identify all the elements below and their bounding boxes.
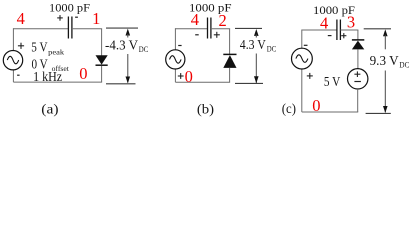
wire top rail right (node 1) [72,28,102,30]
wire left branch lower [301,69,303,112]
DC source + polarity (inside) [354,73,360,75]
svg-text:1: 1 [92,9,100,28]
capacitor C1 right plate [71,17,73,39]
capacitor C3 - polarity [328,35,332,37]
svg-text:2: 2 [218,11,226,30]
AC source - polarity [304,44,308,46]
dimension line lower [384,71,386,113]
svg-text:4.3 V: 4.3 V [240,38,266,53]
svg-text:3: 3 [347,13,355,32]
AC source V1 circle [3,51,22,70]
wire bottom rail (node 0) [175,81,230,83]
capacitor C2 - polarity [195,34,199,36]
capacitor C1 - polarity [75,16,78,18]
dimension top bar [364,28,391,30]
svg-text:0: 0 [185,67,193,86]
AC source - polarity [17,74,20,76]
AC source V2 sine wave [170,56,182,64]
capacitor C3 + polarity [341,35,346,37]
capacitor C2 + polarity [214,34,220,36]
AC source - polarity [178,45,181,47]
dimension down arrowhead [254,76,259,83]
AC source + polarity [307,75,313,77]
svg-text:peak: peak [48,47,64,56]
dimension line lower [255,54,257,84]
capacitor C1 + polarity [57,17,63,19]
wire left branch lower [174,69,176,82]
wire right branch upper [101,29,103,56]
dimension line lower [127,54,129,83]
wire top rail left (node 4) [302,29,337,31]
capacitor C2 right plate [210,18,212,39]
wire right branch lower [101,66,103,82]
svg-text:DC: DC [139,44,149,54]
svg-text:5 V: 5 V [324,75,340,90]
wire right branch lower [229,68,231,82]
DC source - polarity (inside) [354,81,361,83]
svg-text:0: 0 [312,96,320,115]
wire top rail right (node 2) [211,28,230,30]
wire right branch upper [229,29,231,55]
diode D3 triangle (pointing up) [352,41,364,50]
capacitor C1 left plate [67,17,69,39]
AC source + polarity [18,45,24,47]
wire left branch upper [174,28,176,50]
dimension down arrowhead [126,77,131,84]
svg-text:-4.3 V: -4.3 V [105,39,138,54]
svg-text:(b): (b) [197,103,215,118]
svg-text:DC: DC [267,43,277,53]
wire right branch top [357,30,359,40]
dimension up stem [127,34,129,38]
svg-text:5 V: 5 V [31,40,47,55]
svg-text:9.3 V: 9.3 V [370,54,399,69]
dimension top bar [106,27,138,29]
wire right branch lower [357,89,359,112]
capacitor C2 left plate [207,18,209,39]
diode D1 cathode bar [96,64,108,66]
AC source V4 circle [292,48,313,69]
wire left branch upper [12,28,14,50]
dimension bottom bar [366,112,391,114]
diode D1 triangle (pointing down) [96,55,108,64]
svg-text:0: 0 [79,64,87,83]
DC source V3 circle [348,69,368,89]
AC source V2 circle [166,50,185,69]
wire top rail left (node 4) [175,28,207,30]
dimension up arrowhead [126,29,131,36]
svg-text:1000 pF: 1000 pF [49,1,90,15]
svg-text:4: 4 [191,10,199,29]
svg-text:4: 4 [17,9,25,28]
svg-text:(c): (c) [282,102,297,117]
wire bottom rail (node 0) [13,81,102,83]
AC source + polarity [178,75,184,77]
diode D3 cathode bar [352,39,364,41]
wire top rail left (node 4) [13,28,68,30]
dimension top bar [235,27,262,29]
wire bottom rail (node 0) [302,111,358,113]
diode D2 triangle (pointing up) [223,55,236,68]
capacitor C3 right plate [339,20,341,41]
AC source V1 sine wave [7,56,18,64]
dimension bottom bar [235,82,263,84]
wire left branch lower [12,70,14,82]
dimension bottom bar [106,83,136,85]
AC source V4 sine wave [296,55,308,63]
dimension up stem [384,35,386,50]
wire right branch middle [357,49,359,68]
dimension up stem [255,34,257,37]
svg-text:DC: DC [399,60,409,70]
dimension up arrowhead [254,29,259,36]
wire left branch upper [301,30,303,49]
dimension up arrowhead [383,29,388,36]
dimension down arrowhead [383,106,388,113]
wire top rail right (node 3) [340,29,358,31]
svg-text:(a): (a) [41,103,59,118]
svg-text:1 kHz: 1 kHz [33,70,62,85]
diode D2 cathode bar [223,53,236,55]
capacitor C3 left plate [336,20,338,41]
